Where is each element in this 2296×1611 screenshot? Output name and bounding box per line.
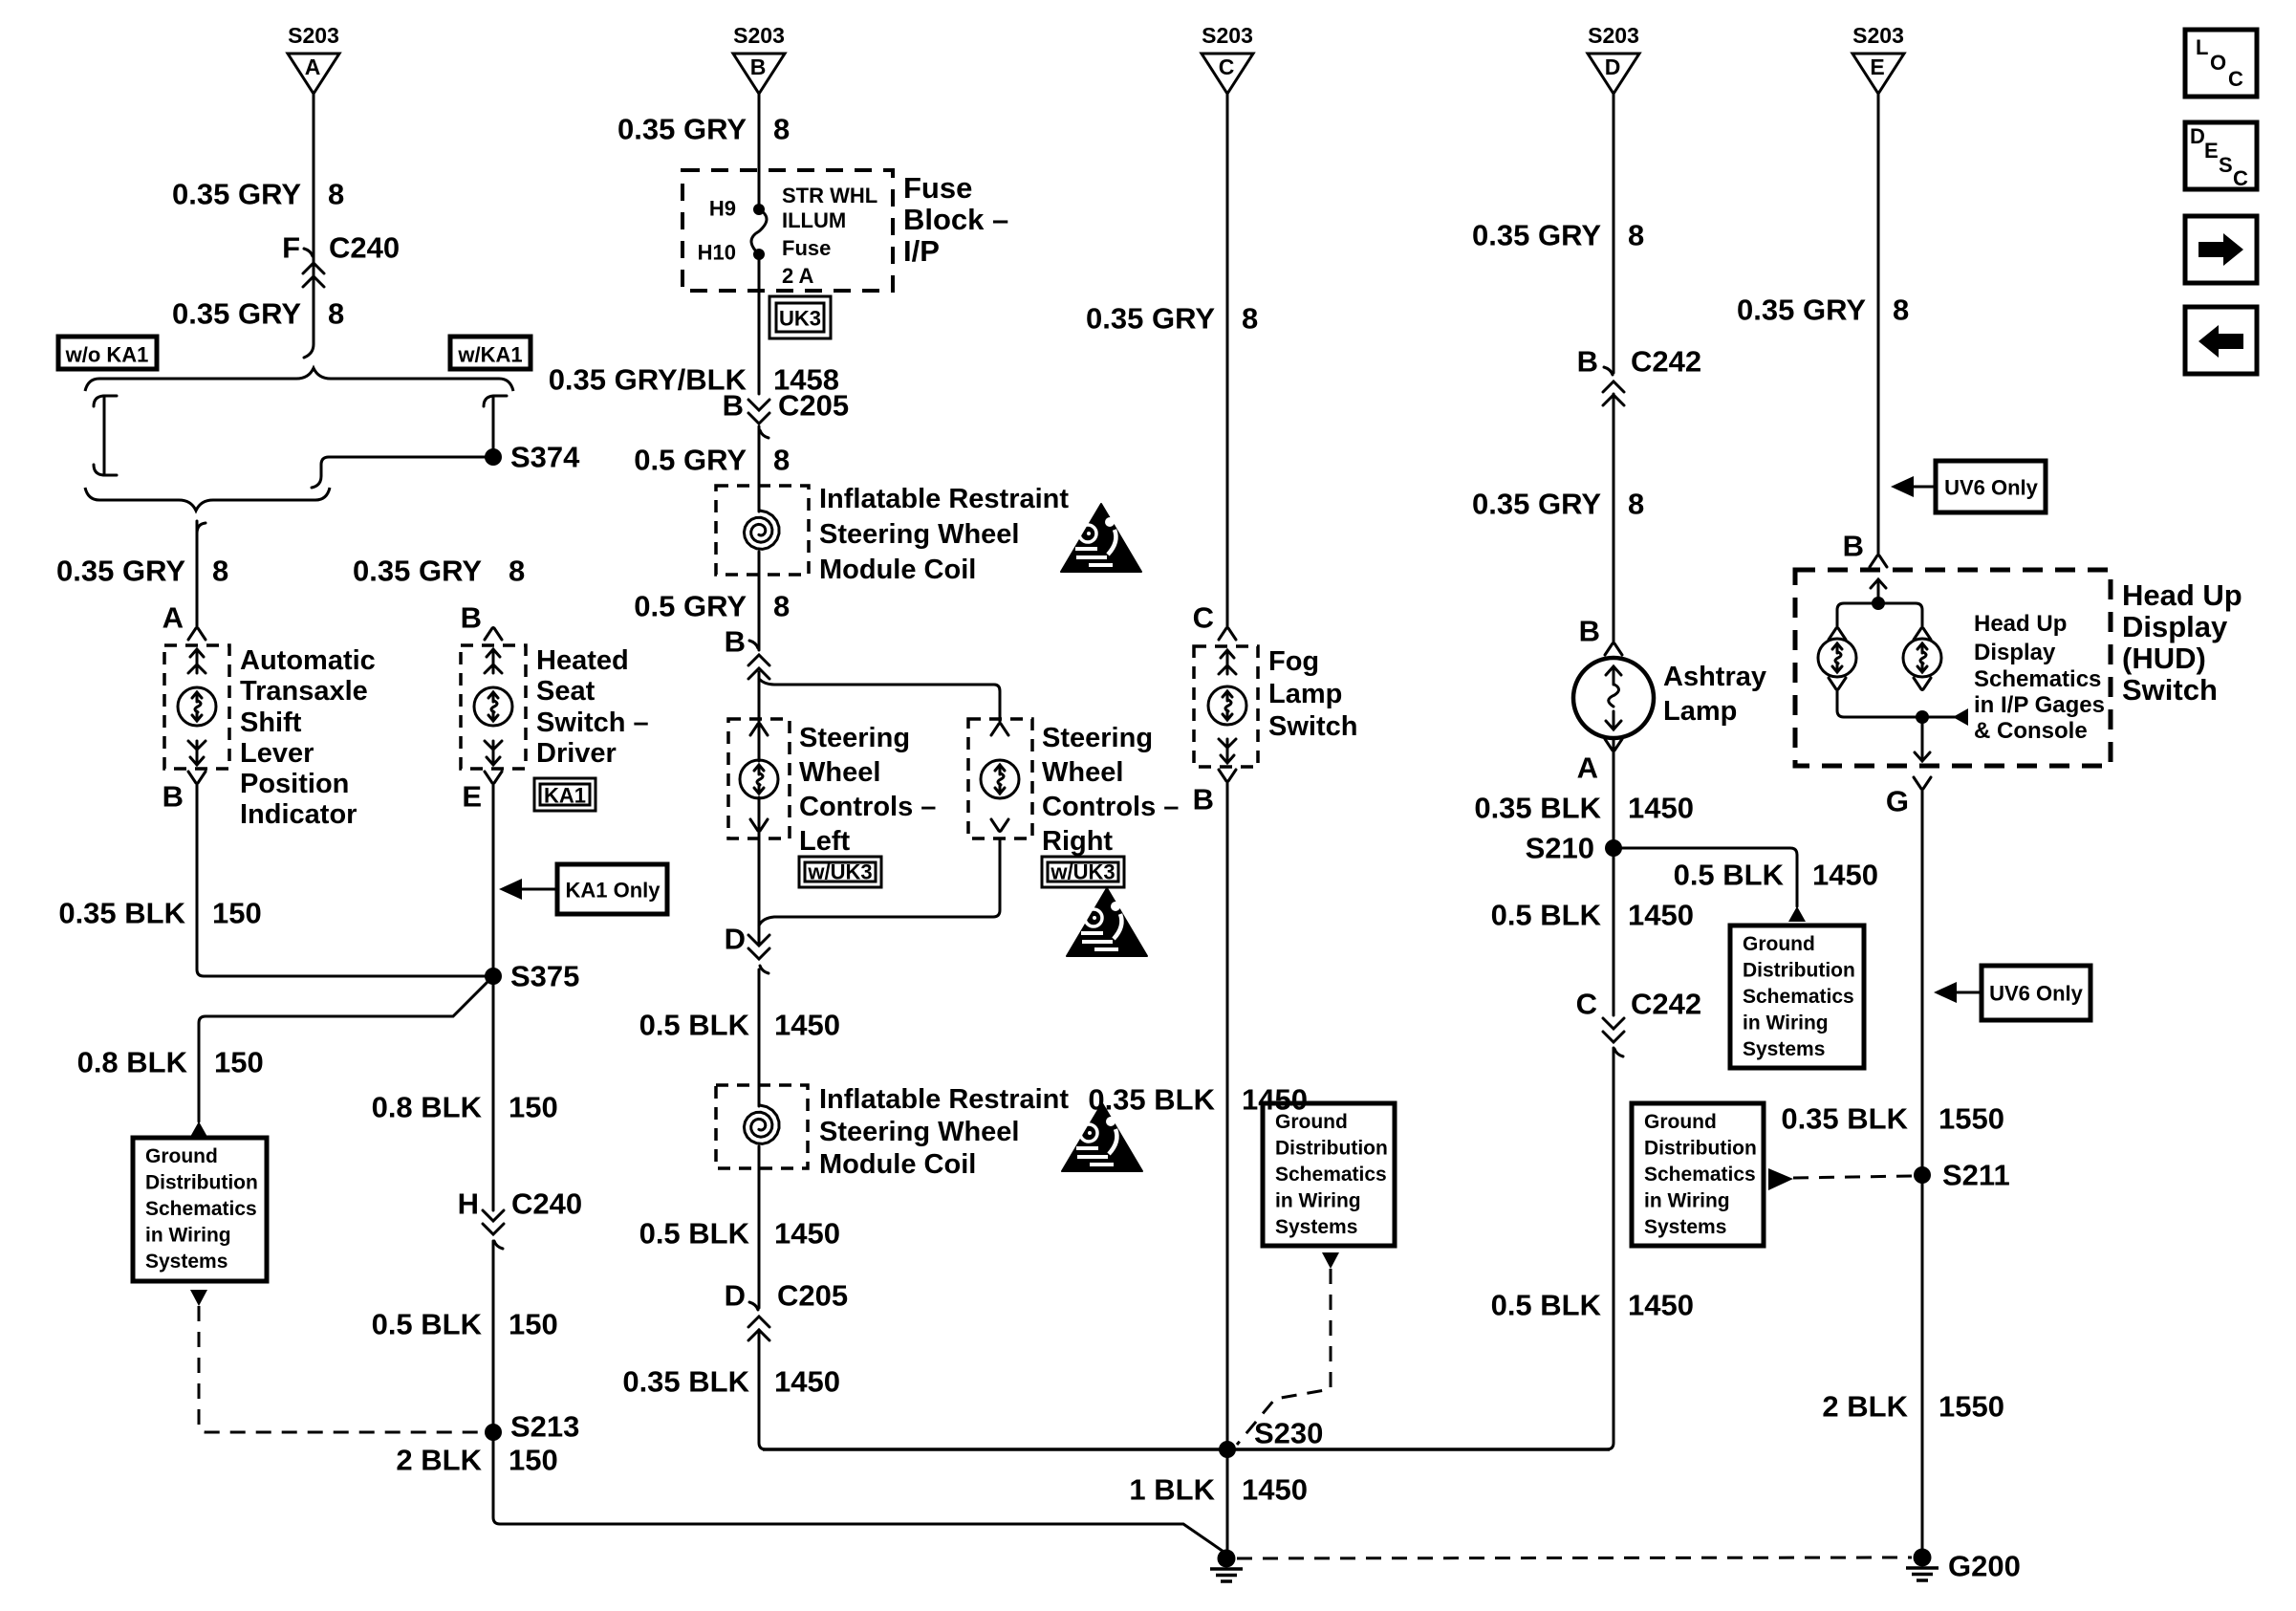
svg-text:(HUD): (HUD) (2122, 642, 2206, 675)
svg-text:in I/P Gages: in I/P Gages (1974, 692, 2105, 718)
dashed bond wire to G200 (1237, 1557, 1912, 1558)
splice S203 ref C (1202, 23, 1253, 94)
svg-text:Wheel: Wheel (799, 757, 880, 788)
ground symbol below S230 (1210, 1550, 1243, 1582)
label 0.5 GRY 8 (634, 444, 790, 477)
svg-text:L: L (2196, 35, 2208, 59)
svg-text:8: 8 (1628, 488, 1644, 521)
inflatable restraint steering wheel module coil box (upper) (716, 486, 809, 575)
svg-text:C242: C242 (1631, 345, 1701, 379)
wire indicator to S375 (197, 783, 493, 976)
arrow out of far right ref box (1768, 1168, 1793, 1190)
svg-text:G: G (1886, 785, 1909, 818)
svg-text:D: D (2190, 124, 2205, 148)
svg-text:S203: S203 (733, 23, 785, 48)
fuse block label (903, 171, 1008, 268)
svg-text:Controls –: Controls – (1042, 792, 1179, 822)
ground distribution ref box far right (1632, 1103, 1764, 1246)
UK3 tag box (769, 296, 831, 338)
svg-text:0.35 GRY: 0.35 GRY (1472, 488, 1601, 521)
label 0.35 GRY 8 right (353, 555, 525, 588)
coil label upper (819, 484, 1069, 585)
svg-text:0.35 BLK: 0.35 BLK (1474, 792, 1601, 825)
left controls label (799, 723, 936, 857)
fog lamp label (1268, 646, 1357, 742)
svg-text:B: B (723, 389, 744, 423)
svg-text:& Console: & Console (1974, 718, 2088, 744)
heated seat switch driver box (461, 645, 526, 769)
svg-text:S230: S230 (1254, 1417, 1323, 1450)
svg-text:0.5 BLK: 0.5 BLK (1491, 899, 1602, 932)
svg-text:ILLUM: ILLUM (782, 208, 846, 232)
label 0.5 BLK 150 (372, 1308, 558, 1341)
KA1 Only callout (499, 864, 667, 914)
left controls internals (740, 724, 778, 832)
label 0.35 GRY/BLK 1458 (549, 363, 839, 397)
label 0.35 BLK 150 (58, 897, 261, 930)
svg-text:F: F (282, 231, 300, 265)
svg-text:2 A: 2 A (782, 264, 814, 288)
svg-text:0.8 BLK: 0.8 BLK (77, 1046, 188, 1079)
svg-text:0.35 GRY: 0.35 GRY (1472, 219, 1601, 252)
w/UK3 tag right (1042, 857, 1124, 887)
svg-text:Head Up: Head Up (1974, 611, 2067, 637)
svg-text:8: 8 (773, 113, 790, 146)
splice S211 (1914, 1159, 2010, 1192)
legend LOC box (2185, 30, 2257, 97)
svg-text:0.35 GRY: 0.35 GRY (353, 555, 482, 588)
fog lamp switch box (1194, 646, 1258, 767)
svg-text:G200: G200 (1948, 1550, 2021, 1583)
fuse block I/P dashed box (682, 170, 893, 291)
wire merged feed down (197, 521, 206, 626)
svg-text:1450: 1450 (1242, 1473, 1308, 1507)
label 0.35 GRY 8 (1086, 302, 1258, 336)
wire A top (304, 94, 314, 358)
svg-text:Lamp: Lamp (1268, 679, 1342, 709)
splice S374 (485, 441, 580, 474)
label 0.5 BLK 1450 branch (1674, 859, 1878, 892)
svg-text:8: 8 (1242, 302, 1258, 336)
ground distribution ref box right (1730, 925, 1864, 1068)
indicator internals (178, 649, 216, 765)
svg-text:E: E (462, 780, 482, 814)
svg-text:1450: 1450 (1628, 899, 1694, 932)
svg-text:0.5 BLK: 0.5 BLK (1674, 859, 1785, 892)
fuse text (782, 184, 877, 288)
svg-text:Switch: Switch (1268, 711, 1357, 742)
pin B ashtray lamp (1579, 615, 1622, 656)
svg-text:150: 150 (509, 1444, 558, 1477)
splice S230 (1219, 1417, 1323, 1459)
svg-text:Driver: Driver (536, 738, 617, 769)
wire heated seat ground path (493, 783, 1226, 1554)
svg-text:Steering Wheel: Steering Wheel (819, 1117, 1020, 1147)
label 2 BLK 150 (396, 1444, 557, 1477)
arrow out of mid ref box (1322, 1252, 1339, 1269)
svg-text:0.35 BLK: 0.35 BLK (622, 1365, 749, 1399)
svg-text:H9: H9 (709, 197, 736, 221)
svg-text:Automatic: Automatic (240, 645, 376, 676)
label 0.35 GRY 8 (617, 113, 790, 146)
svg-text:Seat: Seat (536, 676, 596, 707)
svg-text:S203: S203 (1202, 23, 1253, 48)
svg-text:A: A (305, 54, 321, 79)
svg-text:1450: 1450 (774, 1365, 840, 1399)
right controls internals (981, 724, 1019, 832)
svg-text:I/P: I/P (903, 234, 940, 268)
svg-text:0.8 BLK: 0.8 BLK (372, 1091, 483, 1124)
pin F connector C240 (282, 231, 400, 288)
svg-text:C: C (2228, 67, 2243, 91)
label 0.5 BLK 1450 (1491, 899, 1694, 932)
svg-text:Inflatable Restraint: Inflatable Restraint (819, 484, 1069, 514)
svg-text:Module Coil: Module Coil (819, 1149, 976, 1180)
pin B fog lamp (1193, 770, 1236, 816)
svg-text:Head Up: Head Up (2122, 578, 2242, 612)
svg-text:E: E (2204, 139, 2219, 163)
ground distribution ref box mid (1263, 1103, 1395, 1246)
svg-text:A: A (162, 601, 184, 635)
svg-text:A: A (1577, 751, 1598, 785)
fuse STR WHL ILLUM 2A (698, 197, 767, 265)
svg-text:C: C (2233, 166, 2248, 190)
label 0.35 GRY 8 left (56, 555, 228, 588)
splice S210 (1526, 832, 1622, 865)
label 0.35 BLK 1450 (622, 1365, 840, 1399)
wire D top (1607, 94, 1614, 1449)
svg-text:O: O (2210, 51, 2226, 75)
svg-text:Module Coil: Module Coil (819, 555, 976, 585)
svg-text:0.5 BLK: 0.5 BLK (639, 1217, 750, 1251)
svg-text:Wheel: Wheel (1042, 757, 1123, 788)
svg-text:C205: C205 (778, 389, 849, 423)
svg-text:C: C (1193, 601, 1214, 635)
pin B connector steering wheel (725, 625, 769, 680)
svg-text:C: C (1576, 988, 1597, 1021)
splice S213 (485, 1410, 579, 1444)
svg-text:Right: Right (1042, 826, 1113, 857)
arrow out of ground ref box (190, 1290, 207, 1306)
svg-text:B: B (1579, 615, 1600, 648)
svg-text:w/KA1: w/KA1 (457, 343, 522, 367)
label 0.5 BLK 1450 (639, 1009, 840, 1042)
svg-text:Switch: Switch (2122, 673, 2218, 707)
svg-text:8: 8 (509, 555, 525, 588)
svg-text:0.35 GRY: 0.35 GRY (172, 178, 301, 211)
svg-text:0.35 GRY: 0.35 GRY (56, 555, 185, 588)
svg-text:Fuse: Fuse (782, 236, 831, 260)
svg-text:w/UK3: w/UK3 (807, 860, 872, 884)
svg-text:B: B (461, 601, 482, 635)
HUD schematics ref text (1974, 611, 2105, 744)
svg-text:STR WHL: STR WHL (782, 184, 877, 207)
svg-text:2 BLK: 2 BLK (1822, 1390, 1908, 1424)
label 0.35 GRY 8 (172, 178, 344, 211)
svg-text:S210: S210 (1526, 832, 1594, 865)
svg-text:150: 150 (509, 1091, 558, 1124)
UV6 Only callout upper (1891, 461, 2046, 512)
pin C fog lamp (1193, 601, 1236, 641)
svg-text:Steering: Steering (799, 723, 910, 753)
wire C down to ground (1226, 781, 1229, 1550)
svg-text:0.35 GRY: 0.35 GRY (617, 113, 747, 146)
svg-text:8: 8 (773, 444, 790, 477)
steering wheel controls left box (728, 719, 790, 838)
wire to SIR coil (758, 426, 761, 650)
coil spiral upper (744, 511, 779, 549)
svg-text:Fuse: Fuse (903, 171, 972, 205)
pin D connector (725, 923, 769, 974)
svg-text:C242: C242 (1631, 988, 1701, 1021)
svg-text:8: 8 (773, 590, 790, 623)
svg-text:0.35 GRY: 0.35 GRY (1086, 302, 1215, 336)
SRS caution triangle upper (1061, 504, 1141, 572)
dashed ref wire to S211 (1793, 1176, 1912, 1178)
svg-text:1450: 1450 (1628, 1289, 1694, 1322)
w/UK3 tag left (799, 857, 881, 887)
svg-text:Switch –: Switch – (536, 708, 649, 738)
svg-text:S213: S213 (510, 1410, 579, 1444)
label 0.5 BLK 1450 (1491, 1289, 1694, 1322)
label 0.35 GRY 8 (1472, 219, 1644, 252)
svg-text:B: B (1843, 530, 1864, 563)
svg-text:1450: 1450 (774, 1217, 840, 1251)
splice S203 ref E (1852, 23, 1904, 94)
svg-text:B: B (1193, 783, 1214, 816)
svg-text:Position: Position (240, 769, 349, 799)
option merge brace (85, 488, 330, 511)
svg-text:Transaxle: Transaxle (240, 676, 368, 707)
svg-text:Block –: Block – (903, 203, 1008, 236)
pin G HUD (1886, 777, 1931, 818)
branch rail to right controls (759, 679, 1000, 722)
label 0.35 BLK 1450 (1474, 792, 1694, 825)
svg-text:S203: S203 (288, 23, 339, 48)
legend DESC box (2185, 122, 2257, 190)
pin B HUD (1843, 530, 1887, 568)
svg-text:8: 8 (1628, 219, 1644, 252)
svg-text:1 BLK: 1 BLK (1129, 1473, 1215, 1507)
label 0.35 BLK 1450 (1088, 1083, 1308, 1117)
svg-text:0.5 BLK: 0.5 BLK (372, 1308, 483, 1341)
svg-text:0.5 BLK: 0.5 BLK (639, 1009, 750, 1042)
label 0.5 BLK 1450 (639, 1217, 840, 1251)
svg-text:B: B (750, 54, 767, 79)
label 0.5 GRY 8 (634, 590, 790, 623)
pin D connector C205 (725, 1279, 849, 1341)
svg-text:Display: Display (1974, 640, 2056, 665)
svg-text:D: D (725, 923, 746, 956)
svg-text:Fog: Fog (1268, 646, 1319, 677)
svg-text:Controls –: Controls – (799, 792, 936, 822)
label 0.8 BLK 150 (heated seat col) (372, 1091, 558, 1124)
pin B connector C205 (723, 389, 850, 439)
coil spiral lower (744, 1105, 779, 1143)
splice S203 ref A (288, 23, 339, 94)
svg-text:0.5 BLK: 0.5 BLK (1491, 1289, 1602, 1322)
right controls label (1042, 723, 1179, 857)
svg-text:KA1 Only: KA1 Only (565, 879, 661, 903)
ashtray lamp label (1663, 662, 1766, 727)
svg-text:1550: 1550 (1939, 1102, 2004, 1136)
pin A ashtray lamp (1577, 739, 1622, 785)
svg-text:D: D (1605, 54, 1621, 79)
pin H connector C240 (458, 1187, 583, 1250)
svg-text:S: S (2219, 153, 2233, 177)
svg-text:B: B (1577, 345, 1598, 379)
svg-text:1450: 1450 (1812, 859, 1878, 892)
w/KA1 option wire (484, 396, 507, 457)
svg-text:w/UK3: w/UK3 (1050, 860, 1115, 884)
svg-text:8: 8 (328, 297, 344, 331)
svg-text:150: 150 (212, 897, 262, 930)
option box w/KA1 (450, 337, 531, 369)
w/o KA1 option wire (94, 396, 117, 475)
svg-text:E: E (1870, 54, 1884, 79)
splice rail S230 (763, 1448, 1610, 1451)
label 0.8 BLK 150 left (77, 1046, 264, 1079)
wire S210 branch to ground ref (1614, 848, 1797, 906)
HUD internals (1818, 579, 1968, 761)
coil label lower (819, 1084, 1069, 1180)
arrow into ground ref box right (1788, 906, 1806, 922)
pin B heated seat (461, 601, 502, 641)
splice S203 ref B (733, 23, 785, 94)
option brace split (85, 368, 513, 391)
KA1 tag box (534, 778, 596, 811)
svg-text:Ashtray: Ashtray (1663, 662, 1766, 692)
svg-text:H10: H10 (698, 241, 736, 265)
pin B connector C242 (1577, 345, 1702, 406)
svg-text:2 BLK: 2 BLK (396, 1444, 482, 1477)
wire to lower coil (758, 969, 761, 1308)
svg-text:0.35 GRY: 0.35 GRY (1737, 294, 1866, 327)
pin E heated seat (462, 772, 502, 814)
wire G down to G200 (1921, 789, 1924, 1549)
svg-text:H: H (458, 1187, 479, 1221)
pin A indicator (162, 601, 206, 641)
svg-text:C: C (1219, 54, 1235, 79)
pin B indicator (162, 772, 206, 814)
legend left-arrow box (2185, 307, 2257, 374)
SRS caution triangle lower (1062, 1103, 1142, 1171)
svg-text:0.35 GRY: 0.35 GRY (172, 297, 301, 331)
svg-text:0.5 GRY: 0.5 GRY (634, 590, 747, 623)
label 1 BLK 1450 (1129, 1473, 1308, 1507)
svg-text:Steering Wheel: Steering Wheel (819, 519, 1020, 550)
automatic transaxle shift lever position indicator box (164, 645, 229, 769)
wire B through controls (758, 672, 761, 945)
svg-text:Shift: Shift (240, 708, 302, 738)
legend right-arrow box (2185, 216, 2257, 283)
splice S203 ref D (1588, 23, 1639, 94)
svg-text:C240: C240 (329, 231, 400, 265)
wire C top (1226, 94, 1229, 627)
wire S374 branch to merge brace (312, 457, 493, 488)
ground G200 (1906, 1549, 2021, 1583)
label 0.35 BLK 1550 (1781, 1102, 2004, 1136)
svg-text:8: 8 (328, 178, 344, 211)
steering wheel controls right box (968, 719, 1032, 838)
svg-text:S375: S375 (510, 960, 579, 993)
svg-text:UV6 Only: UV6 Only (1944, 476, 2039, 500)
svg-text:C205: C205 (777, 1279, 848, 1313)
svg-text:Indicator: Indicator (240, 799, 357, 830)
indicator label text (240, 645, 376, 830)
svg-text:1450: 1450 (774, 1009, 840, 1042)
wire E top (1877, 94, 1880, 555)
inflatable restraint steering wheel module coil box (lower) (716, 1085, 808, 1168)
splice S375 (485, 960, 579, 993)
label 0.35 GRY 8 (1472, 488, 1644, 521)
svg-text:C240: C240 (511, 1187, 582, 1221)
ashtray lamp (1573, 658, 1654, 738)
ground distribution ref box left (133, 1138, 267, 1281)
wire B bottom to splice rail (759, 1330, 766, 1449)
arrow into ground ref box (190, 1121, 207, 1137)
wire B top (758, 94, 761, 394)
svg-text:1550: 1550 (1939, 1390, 2004, 1424)
pin C connector C242 (1576, 988, 1702, 1057)
fog lamp internals (1208, 650, 1246, 763)
svg-text:Display: Display (2122, 610, 2228, 643)
svg-text:Left: Left (799, 826, 851, 857)
label 2 BLK 1550 (1822, 1390, 2004, 1424)
svg-text:Schematics: Schematics (1974, 666, 2101, 692)
svg-text:0.5 GRY: 0.5 GRY (634, 444, 747, 477)
svg-text:D: D (725, 1279, 746, 1313)
wire S375 branch to ground ref (199, 976, 493, 1121)
svg-text:S374: S374 (510, 441, 580, 474)
svg-text:Lamp: Lamp (1663, 696, 1737, 727)
dashed ref wire to S230 (1237, 1269, 1331, 1445)
dashed ref wire to S213 (199, 1306, 483, 1432)
rail from right controls merge (759, 838, 1000, 925)
svg-text:Steering: Steering (1042, 723, 1153, 753)
UV6 Only callout lower (1934, 966, 2090, 1020)
svg-text:150: 150 (214, 1046, 264, 1079)
label 0.35 GRY 8 (1737, 294, 1909, 327)
svg-text:8: 8 (212, 555, 228, 588)
svg-text:0.35 BLK: 0.35 BLK (1088, 1083, 1215, 1117)
svg-text:UK3: UK3 (779, 307, 821, 331)
svg-text:B: B (162, 780, 184, 814)
svg-text:Inflatable Restraint: Inflatable Restraint (819, 1084, 1069, 1115)
svg-text:w/o KA1: w/o KA1 (65, 343, 149, 367)
svg-text:B: B (725, 625, 746, 659)
svg-text:Heated: Heated (536, 645, 629, 676)
svg-text:S203: S203 (1588, 23, 1639, 48)
heated seat label (536, 645, 649, 769)
option box w/o KA1 (58, 337, 157, 369)
heated seat internals (474, 649, 512, 765)
svg-text:1450: 1450 (1628, 792, 1694, 825)
svg-text:8: 8 (1893, 294, 1909, 327)
svg-text:UV6 Only: UV6 Only (1989, 982, 2084, 1006)
SRS caution triangle mid (1067, 888, 1147, 956)
svg-text:0.35 GRY/BLK: 0.35 GRY/BLK (549, 363, 747, 397)
svg-text:0.35 BLK: 0.35 BLK (1781, 1102, 1908, 1136)
svg-text:S211: S211 (1942, 1159, 2010, 1192)
svg-text:Lever: Lever (240, 738, 314, 769)
svg-text:S203: S203 (1852, 23, 1904, 48)
svg-text:0.35 BLK: 0.35 BLK (58, 897, 185, 930)
label 0.35 GRY 8 (172, 297, 344, 331)
svg-text:KA1: KA1 (544, 784, 586, 808)
head up display switch box (1795, 570, 2111, 766)
HUD switch label (2122, 578, 2242, 707)
